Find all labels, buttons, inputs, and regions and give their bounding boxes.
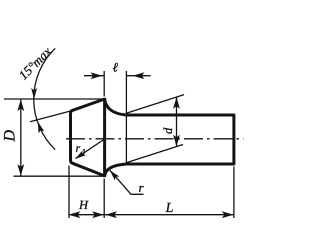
svg-text:H: H [78,198,89,212]
svg-text:1: 1 [81,147,86,157]
svg-text:r: r [75,141,80,155]
svg-text:L: L [165,201,174,216]
svg-text:ℓ: ℓ [112,59,118,74]
svg-text:d: d [161,127,175,134]
svg-text:D: D [2,130,19,143]
